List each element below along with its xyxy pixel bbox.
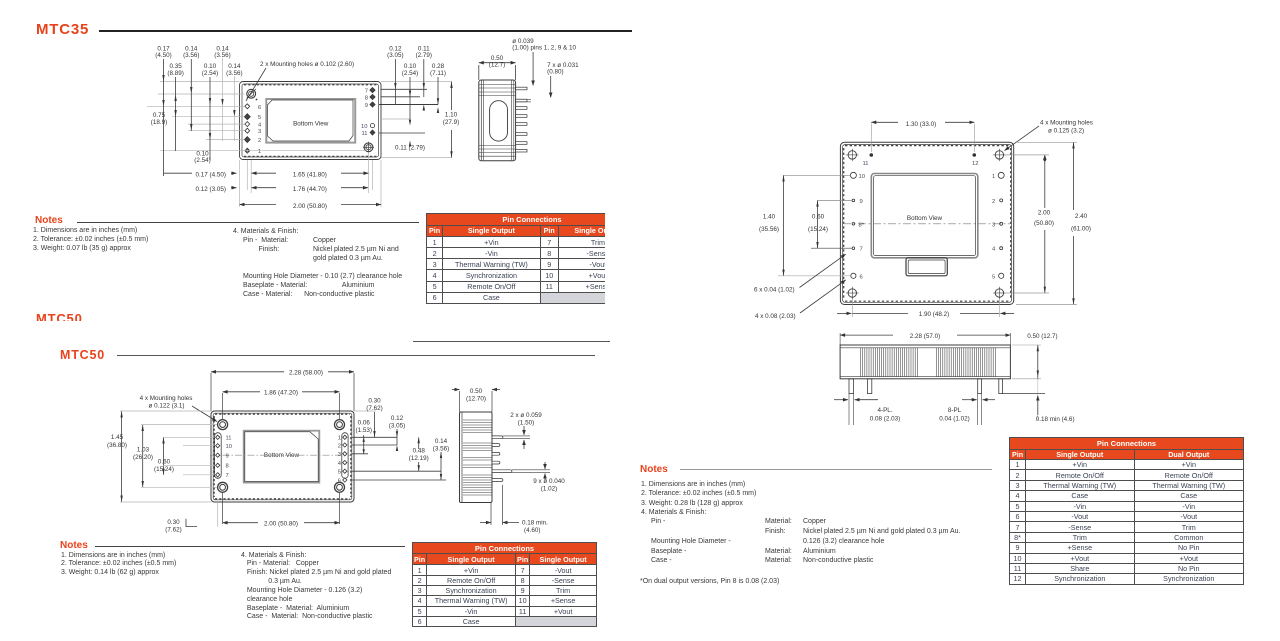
svg-text:0.10: 0.10 [204,63,217,70]
svg-text:10: 10 [361,124,367,130]
svg-text:2: 2 [338,443,341,449]
svg-text:0.08 (2.03): 0.08 (2.03) [870,416,900,423]
svg-text:1.45: 1.45 [111,434,124,441]
svg-text:(18.9): (18.9) [151,119,167,126]
svg-text:6: 6 [338,478,341,484]
svg-text:0.50 (12.7): 0.50 (12.7) [1027,333,1057,340]
svg-text:2.00: 2.00 [1038,210,1051,217]
svg-text:11: 11 [361,131,367,137]
svg-text:(35.56): (35.56) [759,226,779,233]
svg-text:(12.19): (12.19) [409,455,429,462]
svg-text:(15.24): (15.24) [154,466,174,473]
svg-text:5: 5 [992,274,995,280]
svg-text:4: 4 [992,247,996,253]
svg-text:12: 12 [972,161,978,167]
svg-text:1.65 (41.80): 1.65 (41.80) [293,172,327,179]
svg-text:(3.56): (3.56) [226,70,242,77]
svg-text:0.12: 0.12 [391,415,404,422]
svg-text:(12.7): (12.7) [489,62,505,69]
svg-text:Bottom View: Bottom View [907,215,943,222]
svg-text:2 x ø 0.059: 2 x ø 0.059 [510,412,542,419]
svg-text:5: 5 [338,470,341,476]
svg-text:0.48: 0.48 [413,448,426,455]
svg-text:0.60: 0.60 [812,214,825,221]
svg-text:0.35: 0.35 [169,63,182,70]
svg-text:0.14: 0.14 [435,438,448,445]
svg-text:0.75: 0.75 [153,112,166,119]
svg-text:0.14: 0.14 [228,63,241,70]
svg-text:9: 9 [365,103,368,109]
svg-text:0.30: 0.30 [167,519,180,526]
svg-text:(7.62): (7.62) [165,527,181,534]
svg-text:(2.54): (2.54) [194,157,210,164]
svg-text:6: 6 [258,105,261,111]
svg-text:5: 5 [258,115,261,121]
svg-text:1.03: 1.03 [137,447,150,454]
svg-text:4: 4 [258,123,262,129]
svg-text:(2.79): (2.79) [416,52,432,59]
svg-text:ø 0.122 (3.1): ø 0.122 (3.1) [148,403,184,410]
svg-text:0.10: 0.10 [404,63,417,70]
svg-text:4 x Mounting holes: 4 x Mounting holes [140,395,193,402]
svg-text:9: 9 [226,454,229,460]
svg-text:(2.54): (2.54) [402,70,418,77]
svg-text:1: 1 [258,149,261,155]
svg-text:(1.00) pins 1, 2, 9 & 10: (1.00) pins 1, 2, 9 & 10 [512,45,576,52]
svg-text:0.12 (3.05): 0.12 (3.05) [196,186,226,193]
svg-text:0.18 min.: 0.18 min. [522,520,548,527]
svg-text:4-PL.: 4-PL. [877,407,892,414]
svg-text:3: 3 [338,452,341,458]
svg-text:6 x 0.04 (1.02): 6 x 0.04 (1.02) [754,287,795,294]
svg-text:(36.80): (36.80) [107,442,127,449]
svg-text:(12.70): (12.70) [466,396,486,403]
svg-text:(61.00): (61.00) [1071,226,1091,233]
svg-text:8-PL: 8-PL [948,407,962,414]
svg-text:1.30 (33.0): 1.30 (33.0) [906,121,936,128]
svg-text:1: 1 [338,436,341,442]
svg-text:9 x ø 0.040: 9 x ø 0.040 [533,478,565,485]
svg-text:(3.56): (3.56) [183,52,199,59]
svg-text:2: 2 [258,138,261,144]
svg-text:0.04 (1.02): 0.04 (1.02) [939,416,969,423]
svg-text:(3.05): (3.05) [389,423,405,430]
svg-text:1.90 (48.2): 1.90 (48.2) [919,311,949,318]
svg-text:4: 4 [338,461,342,467]
svg-text:(3.05): (3.05) [387,52,403,59]
svg-text:(4.60): (4.60) [524,527,540,534]
svg-text:(27.9): (27.9) [443,119,459,126]
svg-text:1: 1 [992,174,995,180]
svg-text:ø 0.125 (3.2): ø 0.125 (3.2) [1048,128,1084,135]
svg-text:8: 8 [226,464,229,470]
svg-text:2.00 (50.80): 2.00 (50.80) [264,521,298,528]
svg-text:(3.56): (3.56) [214,52,230,59]
svg-text:7: 7 [860,247,863,253]
svg-text:1.86 (47.20): 1.86 (47.20) [264,390,298,397]
svg-text:11: 11 [226,436,232,442]
svg-text:2.40: 2.40 [1075,213,1088,220]
svg-text:(7.62): (7.62) [366,405,382,412]
svg-text:1.40: 1.40 [763,214,776,221]
svg-text:6: 6 [860,274,863,280]
svg-text:0.18 min (4.6): 0.18 min (4.6) [1036,416,1075,423]
svg-text:2 x Mounting holes ø 0.102 (2.: 2 x Mounting holes ø 0.102 (2.60) [260,61,354,68]
svg-text:(4.50): (4.50) [155,52,171,59]
svg-text:0.17 (4.50): 0.17 (4.50) [196,172,226,179]
svg-text:0.28: 0.28 [432,63,445,70]
svg-text:(1.50): (1.50) [518,420,534,427]
svg-text:(1.02): (1.02) [541,486,557,493]
svg-text:3: 3 [992,222,995,228]
svg-text:(15.24): (15.24) [808,226,828,233]
svg-text:(0.80): (0.80) [547,69,563,76]
svg-text:Bottom View: Bottom View [264,452,300,459]
svg-text:1.10: 1.10 [445,112,458,119]
svg-text:10: 10 [859,174,865,180]
svg-text:(3.56): (3.56) [433,446,449,453]
svg-text:3: 3 [258,129,261,135]
svg-text:7: 7 [226,473,229,479]
svg-text:4 x Mounting holes: 4 x Mounting holes [1040,120,1093,127]
svg-text:(26.20): (26.20) [133,454,153,461]
svg-text:0.60: 0.60 [158,459,171,466]
svg-text:2.28 (57.0): 2.28 (57.0) [910,333,940,340]
svg-text:2.00 (50.80): 2.00 (50.80) [293,203,327,210]
svg-text:(2.54): (2.54) [202,70,218,77]
svg-text:8*: 8* [859,222,865,228]
svg-text:9: 9 [860,199,863,205]
svg-text:0.06: 0.06 [358,420,371,427]
svg-text:Bottom View: Bottom View [293,121,329,128]
svg-text:11: 11 [862,161,868,167]
svg-text:4 x 0.08 (2.03): 4 x 0.08 (2.03) [755,313,796,320]
svg-text:8: 8 [365,96,368,102]
svg-text:0.50: 0.50 [470,388,483,395]
svg-text:1.76 (44.70): 1.76 (44.70) [293,186,327,193]
svg-text:(1.53): (1.53) [355,427,371,434]
svg-text:2: 2 [992,199,995,205]
svg-text:0.30: 0.30 [368,398,381,405]
svg-text:(7.11): (7.11) [430,70,446,77]
svg-text:10: 10 [226,444,232,450]
svg-text:2.28 (58.00): 2.28 (58.00) [289,369,323,376]
svg-text:(50.80): (50.80) [1034,220,1054,227]
svg-text:(8.89): (8.89) [167,70,183,77]
svg-text:0.11 (2.79): 0.11 (2.79) [395,145,425,152]
svg-text:7: 7 [365,89,368,95]
